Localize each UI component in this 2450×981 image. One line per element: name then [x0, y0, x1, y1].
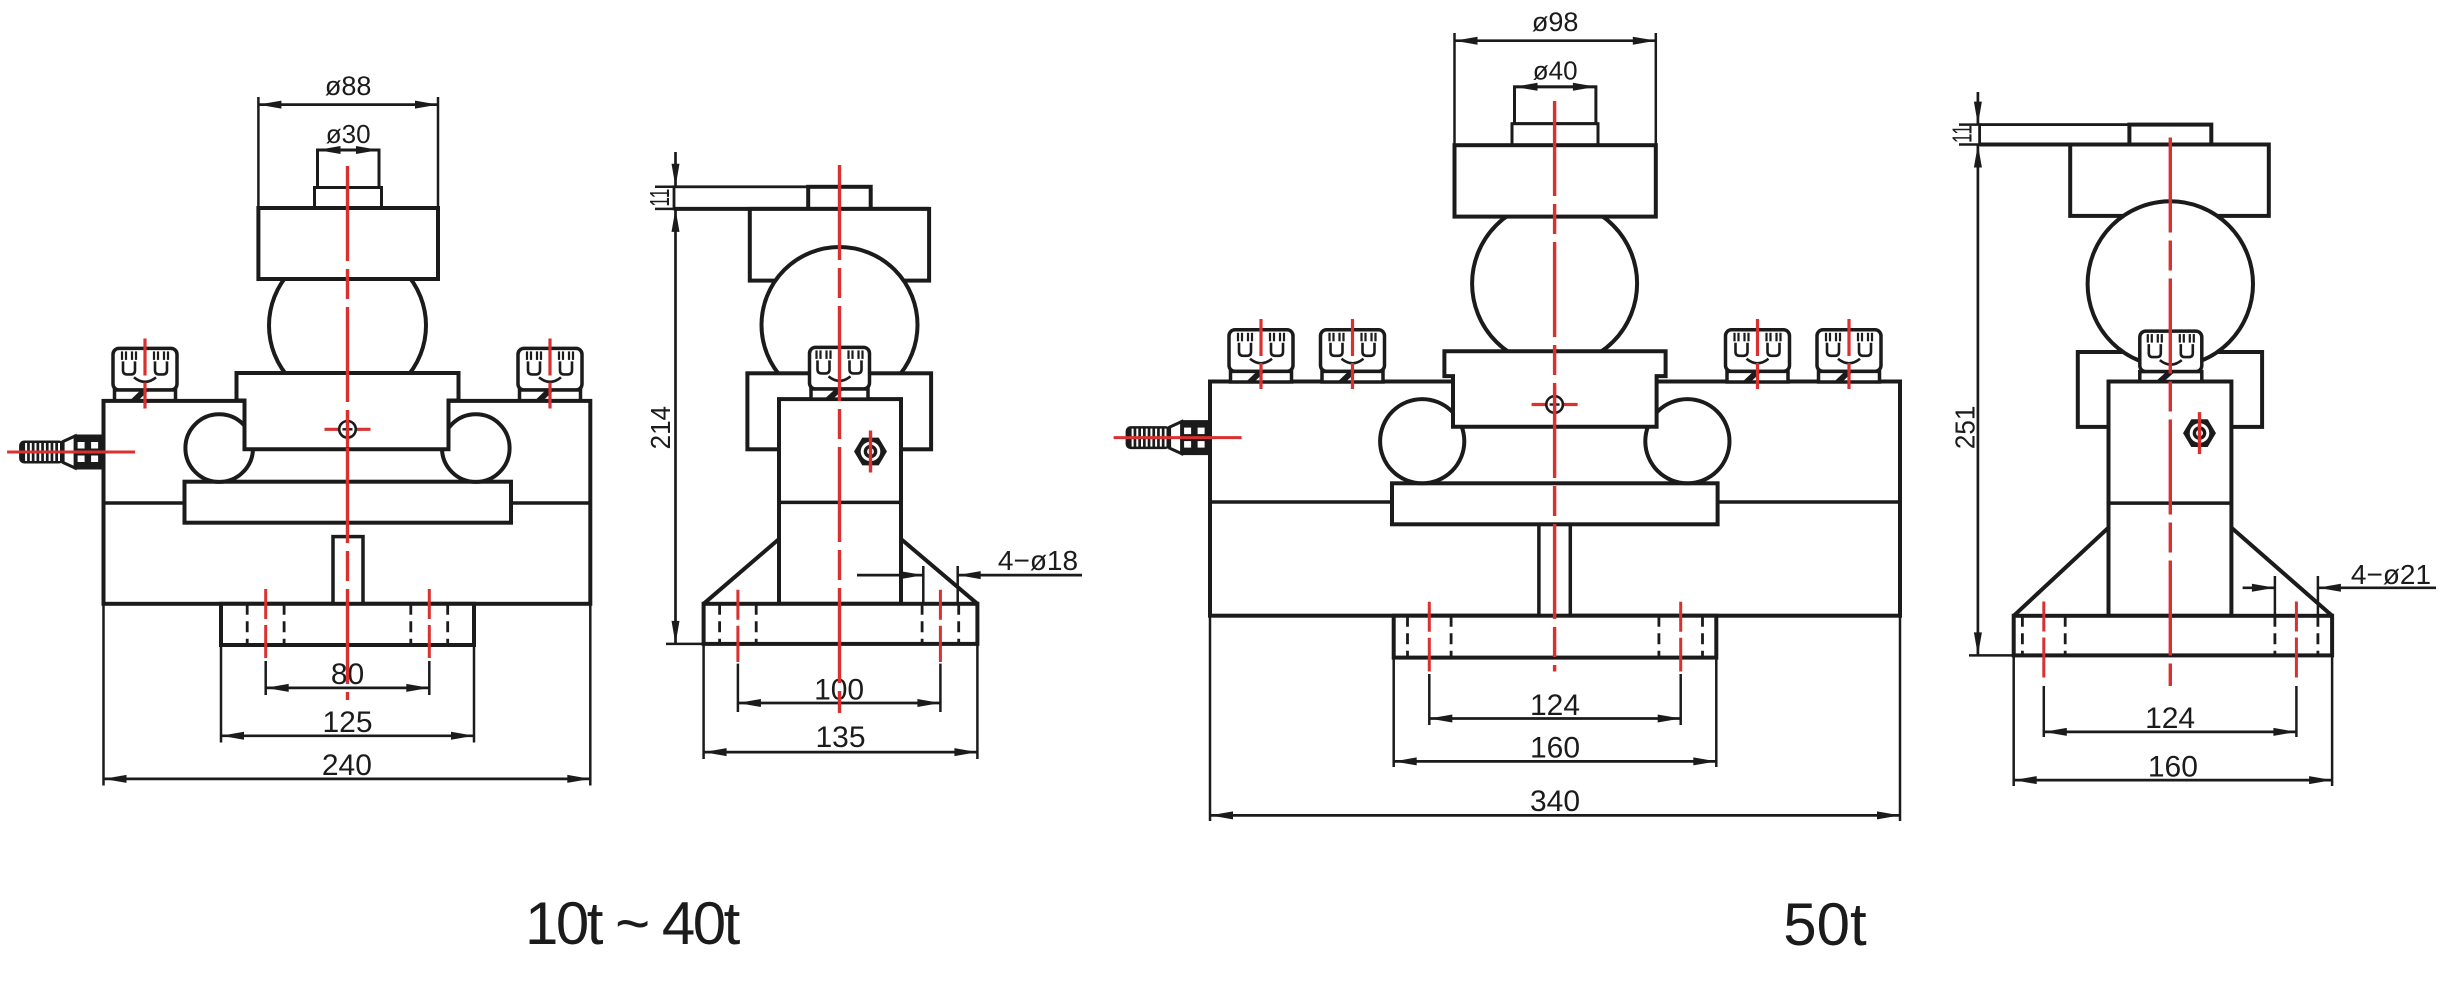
svg-text:340: 340	[1530, 785, 1580, 818]
svg-text:251: 251	[1950, 406, 1981, 449]
svg-text:50t: 50t	[1783, 891, 1867, 958]
svg-text:11: 11	[1946, 125, 1977, 143]
svg-text:4−ø18: 4−ø18	[998, 545, 1078, 576]
svg-text:ø98: ø98	[1532, 7, 1579, 37]
svg-text:4−ø21: 4−ø21	[2351, 559, 2431, 590]
svg-text:160: 160	[2148, 751, 2198, 784]
svg-text:240: 240	[322, 749, 372, 782]
svg-text:ø30: ø30	[326, 119, 371, 149]
svg-text:214: 214	[645, 406, 676, 449]
svg-text:124: 124	[1530, 689, 1580, 722]
svg-text:ø88: ø88	[325, 71, 372, 101]
svg-text:11: 11	[644, 189, 675, 207]
svg-text:135: 135	[815, 721, 865, 754]
svg-text:125: 125	[322, 706, 372, 739]
svg-text:160: 160	[1530, 732, 1580, 765]
svg-text:ø40: ø40	[1533, 56, 1578, 86]
svg-text:10t ~ 40t: 10t ~ 40t	[525, 890, 741, 957]
svg-text:124: 124	[2145, 702, 2195, 735]
